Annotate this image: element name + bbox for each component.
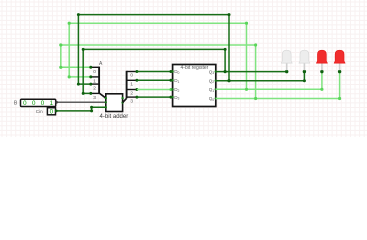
bus wire B to adder: [55, 101, 106, 104]
LED L3 (Q1, on): [316, 50, 327, 70]
wire Q2 to LED L2: [216, 70, 306, 82]
svg-text:2: 2: [130, 91, 133, 97]
wire: Q3 feedback loop (dark): [82, 48, 227, 95]
pin labels Q3-Q0: [209, 69, 215, 102]
input pin Cin (value 0): [47, 108, 55, 116]
subcircuit: 4-bit adder: [105, 94, 124, 112]
svg-text:3: 3: [130, 98, 133, 104]
wire: Q2 feedback loop (dark): [77, 13, 231, 86]
wire Q1 to LED L3: [216, 70, 324, 91]
wire sum bit0 to register D0: [137, 70, 173, 73]
svg-text:0: 0: [93, 69, 96, 75]
LED L4 (Q0, on): [334, 50, 345, 70]
LED L2 (Q2, off): [299, 50, 310, 70]
svg-text:0: 0: [23, 100, 27, 107]
splitter A (adder input A fan-in): [89, 66, 106, 98]
wire sum bit3 to register D3: [137, 96, 173, 99]
svg-text:D2: D2: [174, 87, 179, 93]
svg-text:1: 1: [50, 100, 54, 107]
svg-text:D3: D3: [174, 95, 179, 101]
svg-text:D0: D0: [174, 69, 179, 75]
svg-text:4-bit register: 4-bit register: [181, 65, 209, 71]
svg-text:1: 1: [130, 82, 133, 88]
svg-text:1: 1: [93, 79, 96, 85]
svg-text:0: 0: [50, 108, 54, 115]
svg-text:0: 0: [32, 100, 36, 107]
wire: Q1 feedback loop (light): [68, 22, 249, 90]
svg-text:Q1: Q1: [209, 87, 215, 93]
svg-text:Cin: Cin: [36, 109, 43, 114]
svg-text:3: 3: [93, 95, 96, 101]
wire sum bit2 to register D2: [137, 88, 173, 91]
splitter A bit labels 0-3: [93, 69, 96, 101]
wire Q3 to LED L1: [216, 70, 289, 73]
svg-text:B: B: [14, 101, 18, 107]
svg-text:D1: D1: [174, 78, 179, 84]
splitter: adder sum fan-out: [123, 70, 139, 103]
subcircuit: 4-bit register: [171, 65, 217, 107]
svg-text:2: 2: [93, 86, 96, 92]
svg-text:0: 0: [41, 100, 45, 107]
wire Cin to adder: [55, 106, 106, 113]
svg-text:Q2: Q2: [209, 78, 215, 84]
wire: Q0 feedback loop (light): [59, 43, 257, 98]
svg-text:0: 0: [130, 73, 133, 79]
wire sum bit1 to register D1: [137, 79, 173, 82]
svg-text:Q3: Q3: [209, 69, 215, 75]
svg-text:Q0: Q0: [209, 96, 215, 102]
input pin B (4-bit, value 0001): [21, 99, 56, 107]
wire Q0 to LED L4: [216, 70, 341, 100]
splitter out bit labels 0-3: [130, 73, 133, 105]
svg-text:4-bit adder: 4-bit adder: [100, 114, 129, 120]
pin labels D0-D3: [174, 69, 179, 100]
LED L1 (Q3, off): [281, 50, 292, 70]
